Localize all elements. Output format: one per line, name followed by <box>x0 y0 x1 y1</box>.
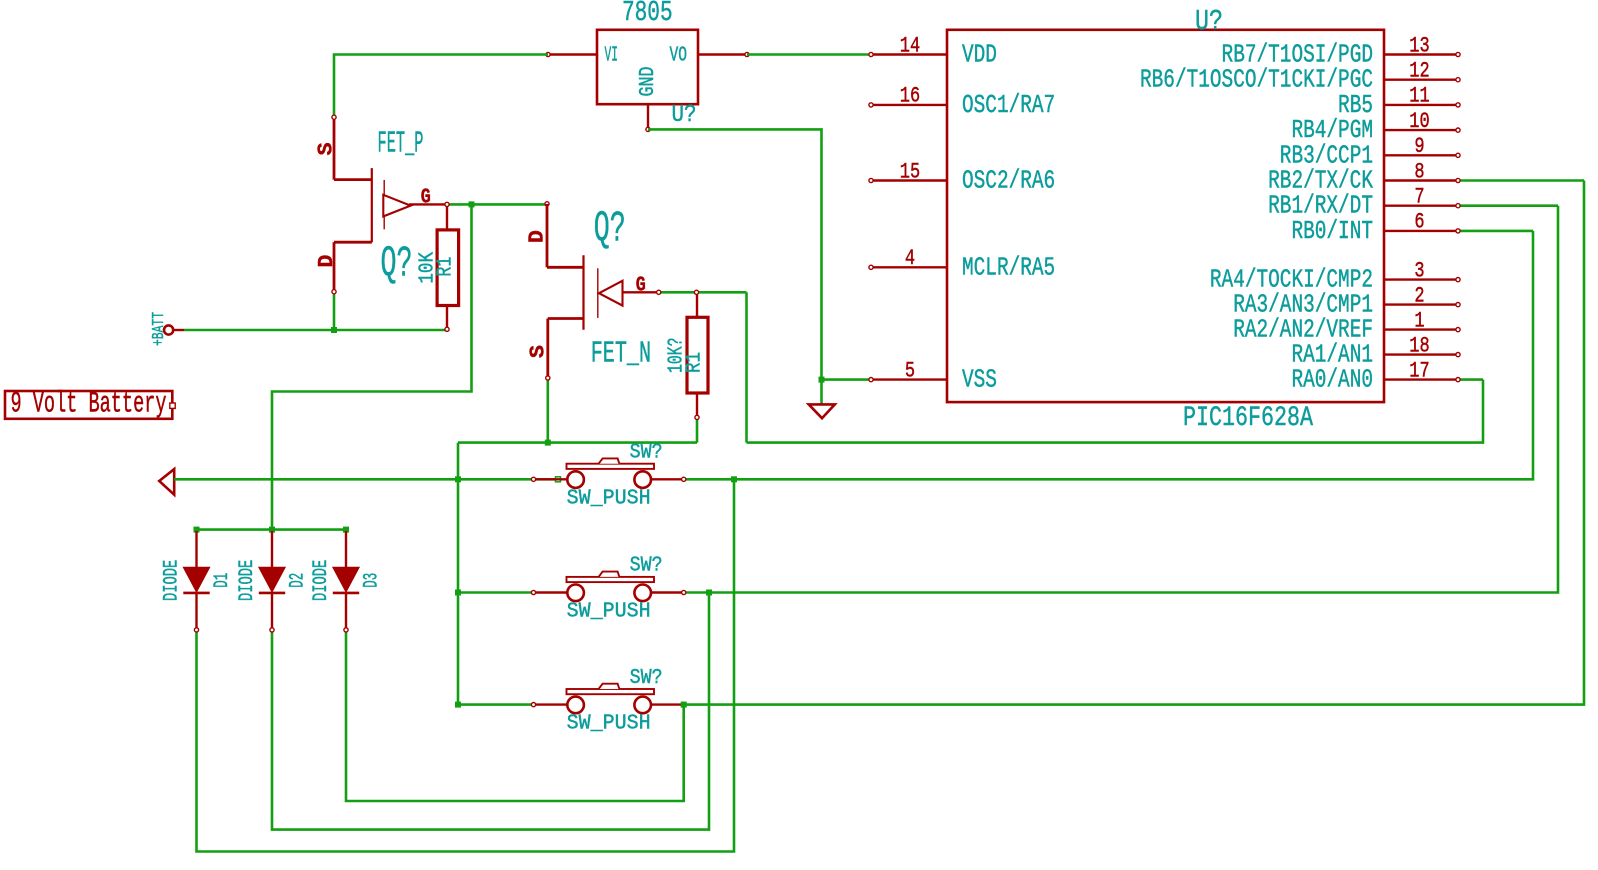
ic pin 13 RB7/T1OSI/PGD stub <box>1384 53 1458 55</box>
switch SW? SW_PUSH #1 left pin <box>534 478 568 480</box>
resistor R1 10K body <box>437 230 459 306</box>
ic pin 6 RB0/INT stub <box>1384 230 1458 232</box>
svg-text:VSS: VSS <box>962 365 997 395</box>
junction SRC at FET_N source <box>545 440 551 446</box>
svg-text:SW?: SW? <box>630 441 663 465</box>
wire net GND stub to ground symbol <box>820 380 823 405</box>
switch #2 contacts <box>567 585 584 602</box>
ic pin 16 OSC1/RA7 stub <box>871 104 947 106</box>
resistor R1 bottom lead <box>696 393 698 417</box>
transistor Q? FET_P drain pin <box>334 241 372 244</box>
svg-text:13: 13 <box>1409 33 1429 58</box>
svg-text:OSC2/RA6: OSC2/RA6 <box>962 166 1055 196</box>
transistor Q? FET_N channel bar <box>582 255 584 330</box>
svg-text:FET_P: FET_P <box>378 127 424 162</box>
ground symbol <box>809 404 835 418</box>
wire SW2 right to RB1 pin 7 <box>684 206 1559 593</box>
ic pin 3 RA4/TOCKI/CMP2 stub <box>1384 278 1458 280</box>
ic pin 12 RB6/T1OSCO/T1CKI/PGC stub <box>1384 78 1458 80</box>
resistor R1 bottom lead <box>446 306 448 330</box>
diode D1 cathode bar <box>183 592 209 595</box>
svg-text:SW_PUSH: SW_PUSH <box>567 600 651 624</box>
wire SW2 junction down to D2 <box>272 593 709 830</box>
transistor Q? FET_N gate pin <box>623 291 659 293</box>
text note 9 Volt Battery box <box>5 391 172 419</box>
svg-text:U?: U? <box>1195 5 1223 38</box>
svg-text:16: 16 <box>900 84 920 109</box>
ic pin 5 VSS stub <box>871 378 947 380</box>
resistor R1 top lead <box>446 207 448 230</box>
ic pin 10 RB4/PGM stub <box>1384 129 1458 131</box>
svg-text:D3: D3 <box>360 573 383 588</box>
wire net SRC vertical to switches <box>457 443 460 705</box>
wire net +5V (regulator VO to VDD pin 14) <box>747 53 871 56</box>
resistor R1 top lead <box>696 295 698 318</box>
ic pin 2 RA3/AN3/CMP1 stub <box>1384 303 1458 305</box>
switch #2 actuator button <box>599 572 620 577</box>
diode D3 cathode bar <box>333 592 359 595</box>
junction SRC at SW3 row <box>455 702 461 708</box>
svg-text:S: S <box>527 345 551 358</box>
diode D1 cathode lead <box>195 594 197 630</box>
switch #2 right pin <box>651 591 684 593</box>
diode D3 triangle <box>333 567 359 592</box>
diode D2 cathode lead <box>271 594 273 630</box>
ic pin 1 RA2/AN2/VREF stub <box>1384 328 1458 330</box>
svg-text:SW_PUSH: SW_PUSH <box>567 712 651 736</box>
switch #2 actuator bar <box>567 577 655 582</box>
wire net NGATE to pin 17 <box>1458 378 1483 381</box>
ic U? PIC16F628A body <box>947 30 1384 402</box>
junction +9V at FET_P drain <box>331 327 337 333</box>
svg-text:DIODE: DIODE <box>160 560 183 601</box>
switch #1 contacts <box>567 471 584 488</box>
transistor Q? FET_P gate line <box>383 180 385 229</box>
svg-text:U?: U? <box>672 102 697 129</box>
ic pin 7 RB1/RX/DT stub <box>1384 204 1458 206</box>
svg-text:G: G <box>421 185 431 209</box>
transistor Q? FET_P gate pin <box>409 203 447 205</box>
wire pin 6 to vertical <box>1458 230 1533 233</box>
switch #3 right pin <box>651 703 684 705</box>
svg-text:S: S <box>314 142 338 155</box>
wire net PGATE down-left to diode bus <box>272 204 472 529</box>
wire FET_N source down <box>546 378 549 443</box>
switch #1 actuator button <box>599 458 620 463</box>
svg-text:12: 12 <box>1409 59 1429 84</box>
regulator pin VI <box>548 53 597 55</box>
switch #3 contacts <box>567 697 584 714</box>
ic pin 11 RB5 stub <box>1384 104 1458 106</box>
svg-text:DIODE: DIODE <box>310 560 333 601</box>
svg-text:5: 5 <box>905 358 915 383</box>
svg-text:G: G <box>636 273 646 297</box>
svg-text:7805: 7805 <box>622 0 673 29</box>
wire end square at SW1 left <box>556 477 561 482</box>
junction SRC at SW1 row <box>455 476 461 482</box>
svg-text:2: 2 <box>1414 283 1424 308</box>
wire net PGATE (FET_P gate to R1 and FET_N drain) <box>447 203 547 206</box>
junction PGATE <box>469 201 475 207</box>
svg-text:1: 1 <box>1414 308 1424 333</box>
svg-text:4: 4 <box>905 246 915 271</box>
junction bus at D2 <box>269 527 275 533</box>
svg-text:15: 15 <box>900 159 920 184</box>
diode D2 anode lead <box>271 531 273 567</box>
net flag arrow (left) <box>159 469 174 495</box>
ic pin 15 OSC2/RA6 stub <box>871 179 947 181</box>
svg-text:RB0/INT: RB0/INT <box>1291 216 1373 246</box>
svg-text:11: 11 <box>1409 84 1429 109</box>
switch SW? SW_PUSH #3 left pin <box>534 703 568 705</box>
svg-text:3: 3 <box>1414 258 1424 283</box>
wire SW1 junction down to D1 <box>197 479 735 851</box>
resistor R1 10K? body <box>687 317 708 393</box>
svg-text:6: 6 <box>1414 210 1424 235</box>
ic pin 14 VDD stub <box>871 53 947 55</box>
diode D1 anode lead <box>195 531 197 567</box>
svg-text:D: D <box>525 230 549 243</box>
diode D2 triangle <box>259 567 285 592</box>
switch SW? SW_PUSH #2 left pin <box>534 591 568 593</box>
svg-text:14: 14 <box>900 33 920 58</box>
wire R1 bottom to SRC row <box>696 419 699 443</box>
wire arrow row to SW1 left pin <box>174 478 558 481</box>
diode D3 anode lead <box>345 531 347 567</box>
regulator pin GND <box>647 104 649 129</box>
junction bus at D3 <box>343 527 349 533</box>
junction GND at VSS row <box>819 377 825 383</box>
svg-text:FET_N: FET_N <box>591 337 651 372</box>
svg-text:D1: D1 <box>211 573 234 588</box>
wire SW3 left pin <box>458 703 533 706</box>
switch #3 actuator bar <box>567 689 655 694</box>
svg-text:Q?: Q? <box>381 240 413 290</box>
wire SW1 right to RB0 pin 6 <box>684 231 1533 479</box>
svg-text:8: 8 <box>1414 159 1424 184</box>
svg-text:10: 10 <box>1409 109 1429 134</box>
junction SW1/D1 <box>731 476 737 482</box>
junction SW2/D2 <box>706 590 712 596</box>
svg-text:R1: R1 <box>434 257 457 277</box>
svg-text:7: 7 <box>1414 185 1424 210</box>
switch #3 actuator button <box>599 684 620 689</box>
svg-text:DIODE: DIODE <box>236 560 259 601</box>
svg-text:SW?: SW? <box>630 554 663 578</box>
wire net NGATE row to RA0 <box>747 380 1484 443</box>
transistor Q? FET_N gate line <box>597 268 599 318</box>
transistor Q? FET_P source pin <box>333 117 336 180</box>
transistor Q? FET_P channel bar <box>371 168 373 242</box>
svg-text:PIC16F628A: PIC16F628A <box>1183 403 1313 434</box>
wire pin 7 to vertical <box>1458 204 1558 207</box>
transistor Q? FET_N gate arrow <box>599 281 623 306</box>
ic pin 4 MCLR/RA5 stub <box>871 266 947 268</box>
junction SW3/D3 <box>681 702 687 708</box>
wire net SRC row <box>458 441 697 444</box>
wire net VIN (FET_P source to regulator VI) <box>334 55 548 118</box>
ic pin 18 RA1/AN1 stub <box>1384 353 1458 355</box>
diode D3 cathode lead <box>345 594 347 630</box>
wire net NGATE (FET_N gate, R1 top) <box>659 291 747 294</box>
wire SW3 junction down to D3 <box>346 632 684 801</box>
wire pin 8 to vertical <box>1458 179 1584 182</box>
regulator U? 7805 body <box>597 30 698 104</box>
switch #1 actuator bar <box>567 464 655 469</box>
svg-text:SW?: SW? <box>630 666 663 690</box>
svg-text:SW_PUSH: SW_PUSH <box>567 486 651 510</box>
wire net +9V battery rail <box>184 329 447 332</box>
wire diode anode bus <box>197 528 347 531</box>
svg-text:R1: R1 <box>683 352 706 373</box>
svg-text:D2: D2 <box>286 573 309 588</box>
wire SW2 left pin <box>458 591 533 594</box>
transistor Q? FET_P gate arrow <box>383 195 410 217</box>
svg-text:9 Volt Battery: 9 Volt Battery <box>11 388 167 422</box>
wire FET_P drain to +9V rail <box>333 292 336 330</box>
svg-text:9: 9 <box>1414 134 1424 159</box>
wire net GND (regulator GND down to VSS) <box>648 129 822 379</box>
transistor Q? FET_N source pin <box>548 317 584 320</box>
ic pin 9 RB3/CCP1 stub <box>1384 154 1458 156</box>
wire net NGATE down to row <box>745 292 748 442</box>
ic pin 17 RA0/AN0 stub <box>1384 378 1458 380</box>
diode D2 cathode bar <box>259 592 285 595</box>
svg-text:OSC1/RA7: OSC1/RA7 <box>962 90 1055 120</box>
junction bus at D1 <box>194 527 200 533</box>
svg-text:VI: VI <box>605 45 619 68</box>
wire net GND to VSS pin 5 <box>822 378 872 381</box>
svg-text:GND: GND <box>637 67 660 97</box>
svg-text:VDD: VDD <box>962 40 997 70</box>
svg-text:RA0/AN0: RA0/AN0 <box>1291 365 1373 395</box>
regulator pin VO <box>698 53 747 55</box>
switch #1 right pin <box>651 478 684 480</box>
diode D1 triangle <box>183 567 209 592</box>
svg-text:17: 17 <box>1409 358 1429 383</box>
svg-text:18: 18 <box>1409 333 1429 358</box>
ic pin 8 RB2/TX/CK stub <box>1384 179 1458 181</box>
svg-text:+BATT: +BATT <box>150 312 169 346</box>
svg-text:VO: VO <box>670 45 688 68</box>
svg-text:MCLR/RA5: MCLR/RA5 <box>962 252 1055 282</box>
svg-text:Q?: Q? <box>594 205 626 255</box>
+BATT terminal <box>164 325 173 334</box>
junction SRC at SW2 row <box>455 590 461 596</box>
wire SW3 right to RB2 pin 8 <box>684 181 1584 705</box>
transistor Q? FET_N drain pin <box>545 202 549 206</box>
svg-text:D: D <box>315 254 339 267</box>
